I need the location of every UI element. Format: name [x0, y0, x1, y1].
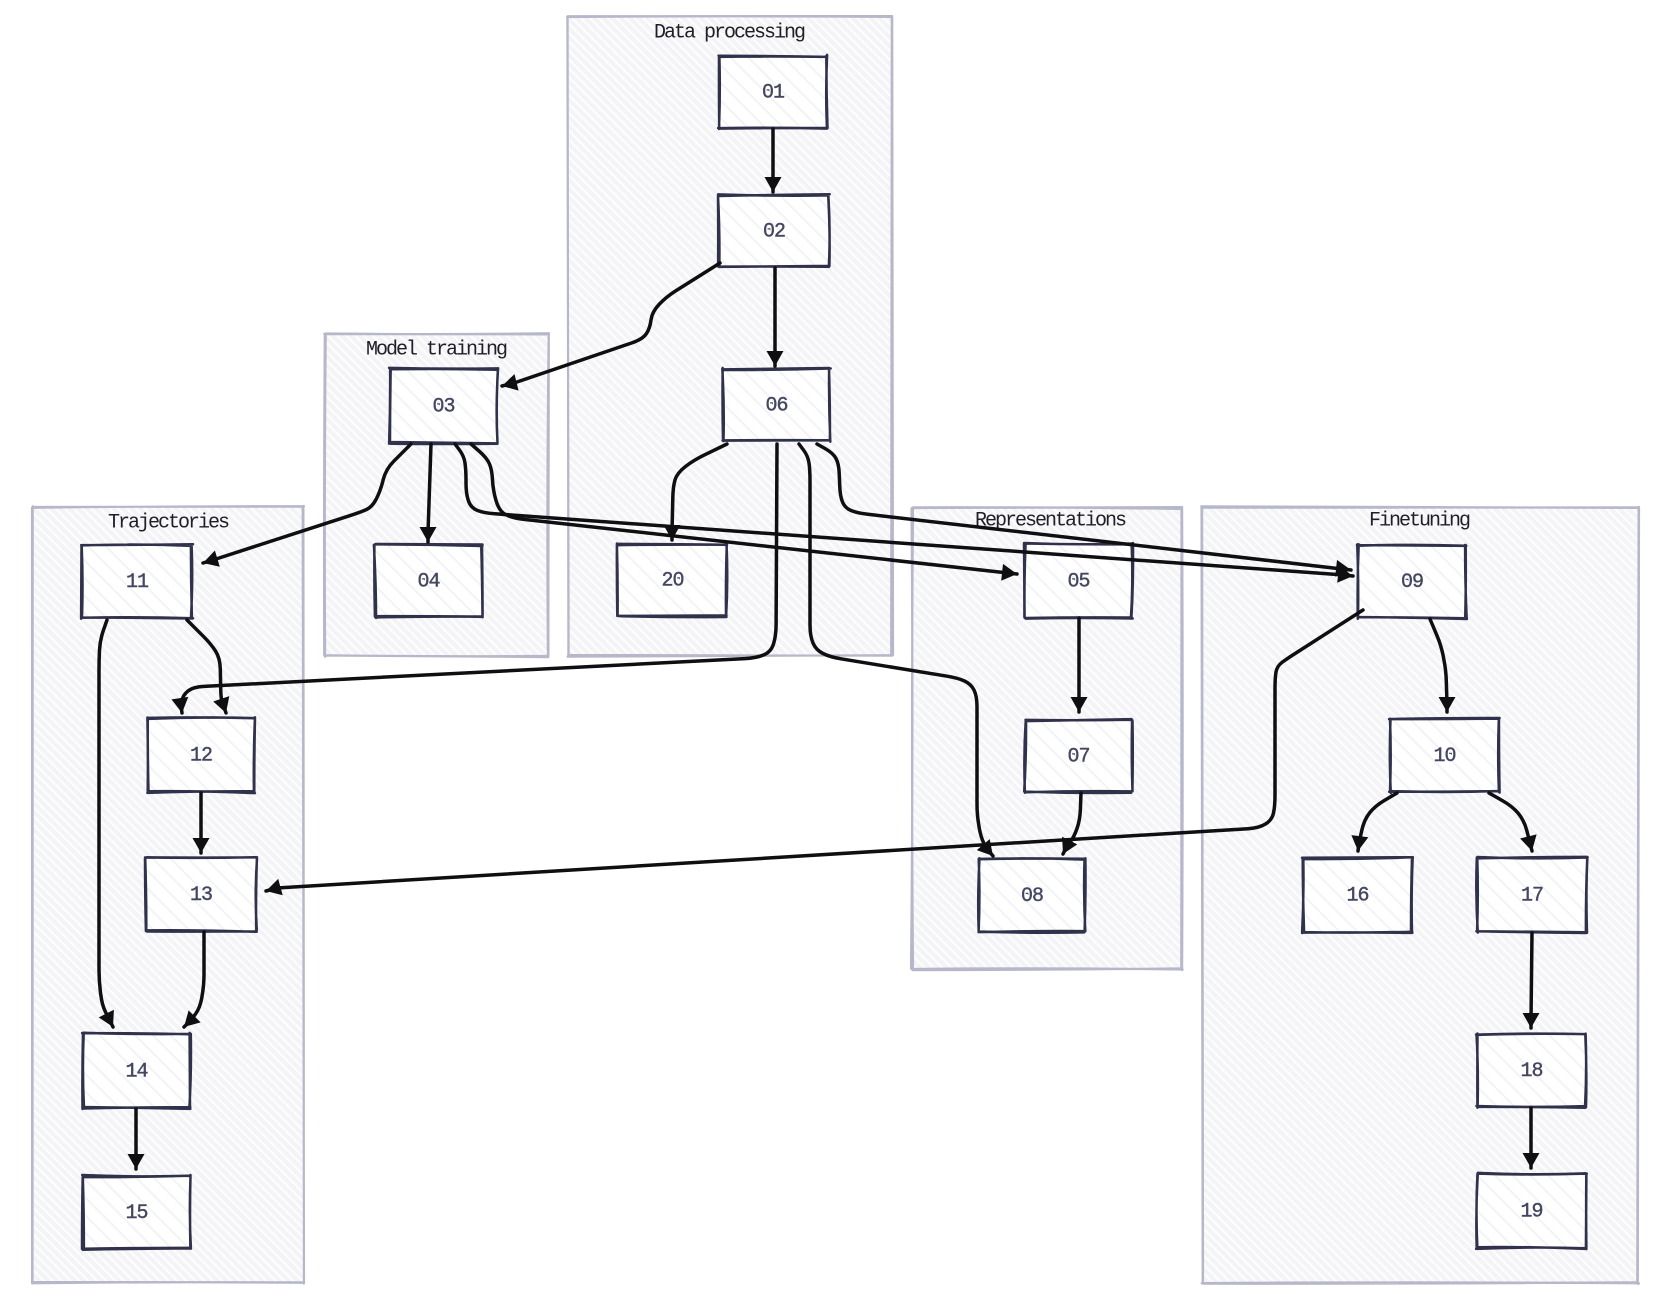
group container: Representations [911, 507, 1183, 970]
arrow 02->06 [767, 268, 784, 366]
box 17 [1476, 857, 1587, 933]
box 05 [1024, 543, 1133, 619]
box 03 [389, 368, 498, 444]
arrow 12->13 [193, 793, 210, 853]
svg-text:07: 07 [1067, 746, 1089, 769]
box 06 [722, 368, 830, 442]
svg-text:15: 15 [125, 1202, 147, 1225]
box 10 [1389, 718, 1500, 793]
box 04 [374, 544, 483, 618]
box 11 [81, 544, 193, 619]
svg-text:08: 08 [1021, 885, 1043, 908]
box 09 [1357, 544, 1467, 619]
arrow 14->15 [128, 1109, 145, 1169]
arrow 03->05 [471, 444, 1017, 581]
svg-text:20: 20 [661, 570, 683, 593]
svg-text:Data processing: Data processing [654, 22, 805, 45]
svg-text:03: 03 [432, 396, 454, 419]
svg-text:Model training: Model training [366, 339, 507, 362]
svg-text:06: 06 [765, 395, 787, 418]
box 07 [1024, 719, 1133, 793]
arrow 18->19 [1523, 1108, 1540, 1168]
svg-text:02: 02 [763, 221, 785, 244]
arrow 03->11 [203, 444, 411, 567]
arrow 11->12 [187, 620, 229, 713]
arrow 06->12 [172, 444, 778, 713]
svg-text:12: 12 [190, 745, 212, 768]
svg-text:18: 18 [1520, 1060, 1542, 1083]
svg-text:04: 04 [417, 571, 439, 594]
svg-text:05: 05 [1067, 571, 1089, 594]
box 15 [82, 1175, 191, 1250]
box 14 [82, 1033, 191, 1109]
svg-text:11: 11 [126, 571, 149, 594]
box 18 [1476, 1034, 1586, 1108]
arrow 09->10 [1430, 619, 1456, 712]
arrow 02->03 [502, 263, 720, 391]
arrow 10->16 [1351, 793, 1397, 851]
box 12 [147, 717, 255, 793]
group container: Model training [324, 333, 549, 657]
svg-text:13: 13 [190, 884, 212, 907]
arrow 17->18 [1523, 933, 1540, 1028]
svg-text:Trajectories: Trajectories [108, 512, 229, 535]
svg-text:09: 09 [1401, 571, 1423, 594]
arrow 01->02 [765, 129, 782, 192]
arrow 03->04 [420, 444, 437, 542]
svg-text:14: 14 [125, 1061, 147, 1084]
group container: Finetuning [1201, 506, 1639, 1284]
arrow 06->20 [664, 444, 728, 540]
arrow 09->13 [266, 610, 1363, 895]
group container: Data processing [567, 16, 893, 657]
svg-text:19: 19 [1520, 1201, 1542, 1224]
arrow 05->07 [1071, 618, 1088, 712]
arrow 06->09 [817, 444, 1351, 577]
box 01 [718, 55, 828, 129]
svg-text:01: 01 [762, 82, 785, 105]
box 16 [1302, 857, 1413, 933]
box 02 [718, 194, 830, 267]
arrow 11->14 [99, 620, 114, 1027]
svg-text:17: 17 [1521, 885, 1543, 908]
box 08 [978, 858, 1085, 932]
box 19 [1476, 1173, 1587, 1249]
arrow 03->09 [455, 444, 1353, 583]
box 20 [617, 543, 727, 617]
arrow 10->17 [1489, 793, 1537, 851]
group container: Trajectories [32, 506, 304, 1284]
svg-text:16: 16 [1346, 885, 1368, 908]
arrow 13->14 [184, 932, 204, 1027]
arrow 07->08 [1062, 793, 1081, 854]
box 13 [145, 857, 257, 932]
arrow 06->08 [799, 444, 993, 856]
svg-text:Finetuning: Finetuning [1369, 510, 1470, 533]
svg-text:10: 10 [1433, 745, 1455, 768]
